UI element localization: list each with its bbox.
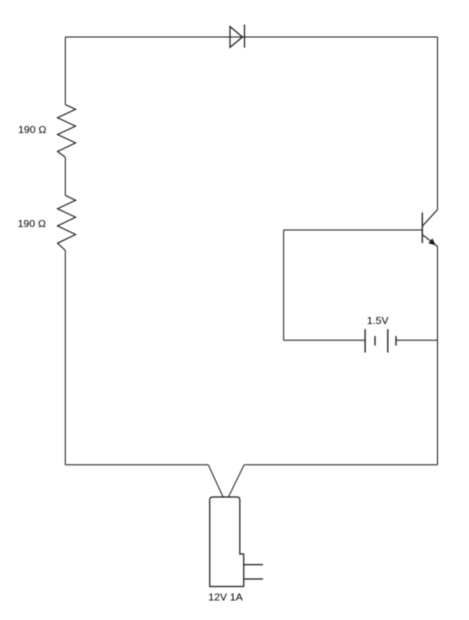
wire neck right diagonal bbox=[229, 465, 245, 497]
wire left lower bbox=[64, 250, 66, 464]
wire neck left diagonal bbox=[208, 465, 223, 497]
wire base loop left vertical bbox=[283, 230, 285, 340]
resistor R1 bbox=[58, 105, 76, 158]
wire right upper (top to collector) bbox=[437, 37, 439, 210]
svg-text:1.5V: 1.5V bbox=[367, 315, 389, 327]
wire battery left bbox=[284, 339, 366, 341]
svg-text:190 Ω: 190 Ω bbox=[18, 218, 46, 230]
wire bottom left bbox=[65, 464, 208, 466]
transistor Q1 (NPN) bbox=[422, 210, 437, 247]
wire base bbox=[284, 229, 423, 231]
svg-text:12V 1A: 12V 1A bbox=[208, 592, 242, 604]
wire left middle bbox=[64, 157, 66, 195]
wire bottom right bbox=[244, 464, 437, 466]
wire left upper bbox=[64, 37, 66, 105]
battery BT1 (1.5V, two cells) bbox=[365, 329, 396, 352]
resistor R2 bbox=[58, 195, 76, 250]
wire battery right bbox=[396, 339, 438, 341]
svg-text:190 Ω: 190 Ω bbox=[18, 124, 46, 136]
wire top bbox=[65, 36, 437, 38]
power adapter X1 (12V 1A body with plug prongs) bbox=[210, 497, 263, 587]
diode D1 bbox=[230, 25, 245, 48]
wire right lower (emitter to bottom) bbox=[437, 246, 439, 464]
